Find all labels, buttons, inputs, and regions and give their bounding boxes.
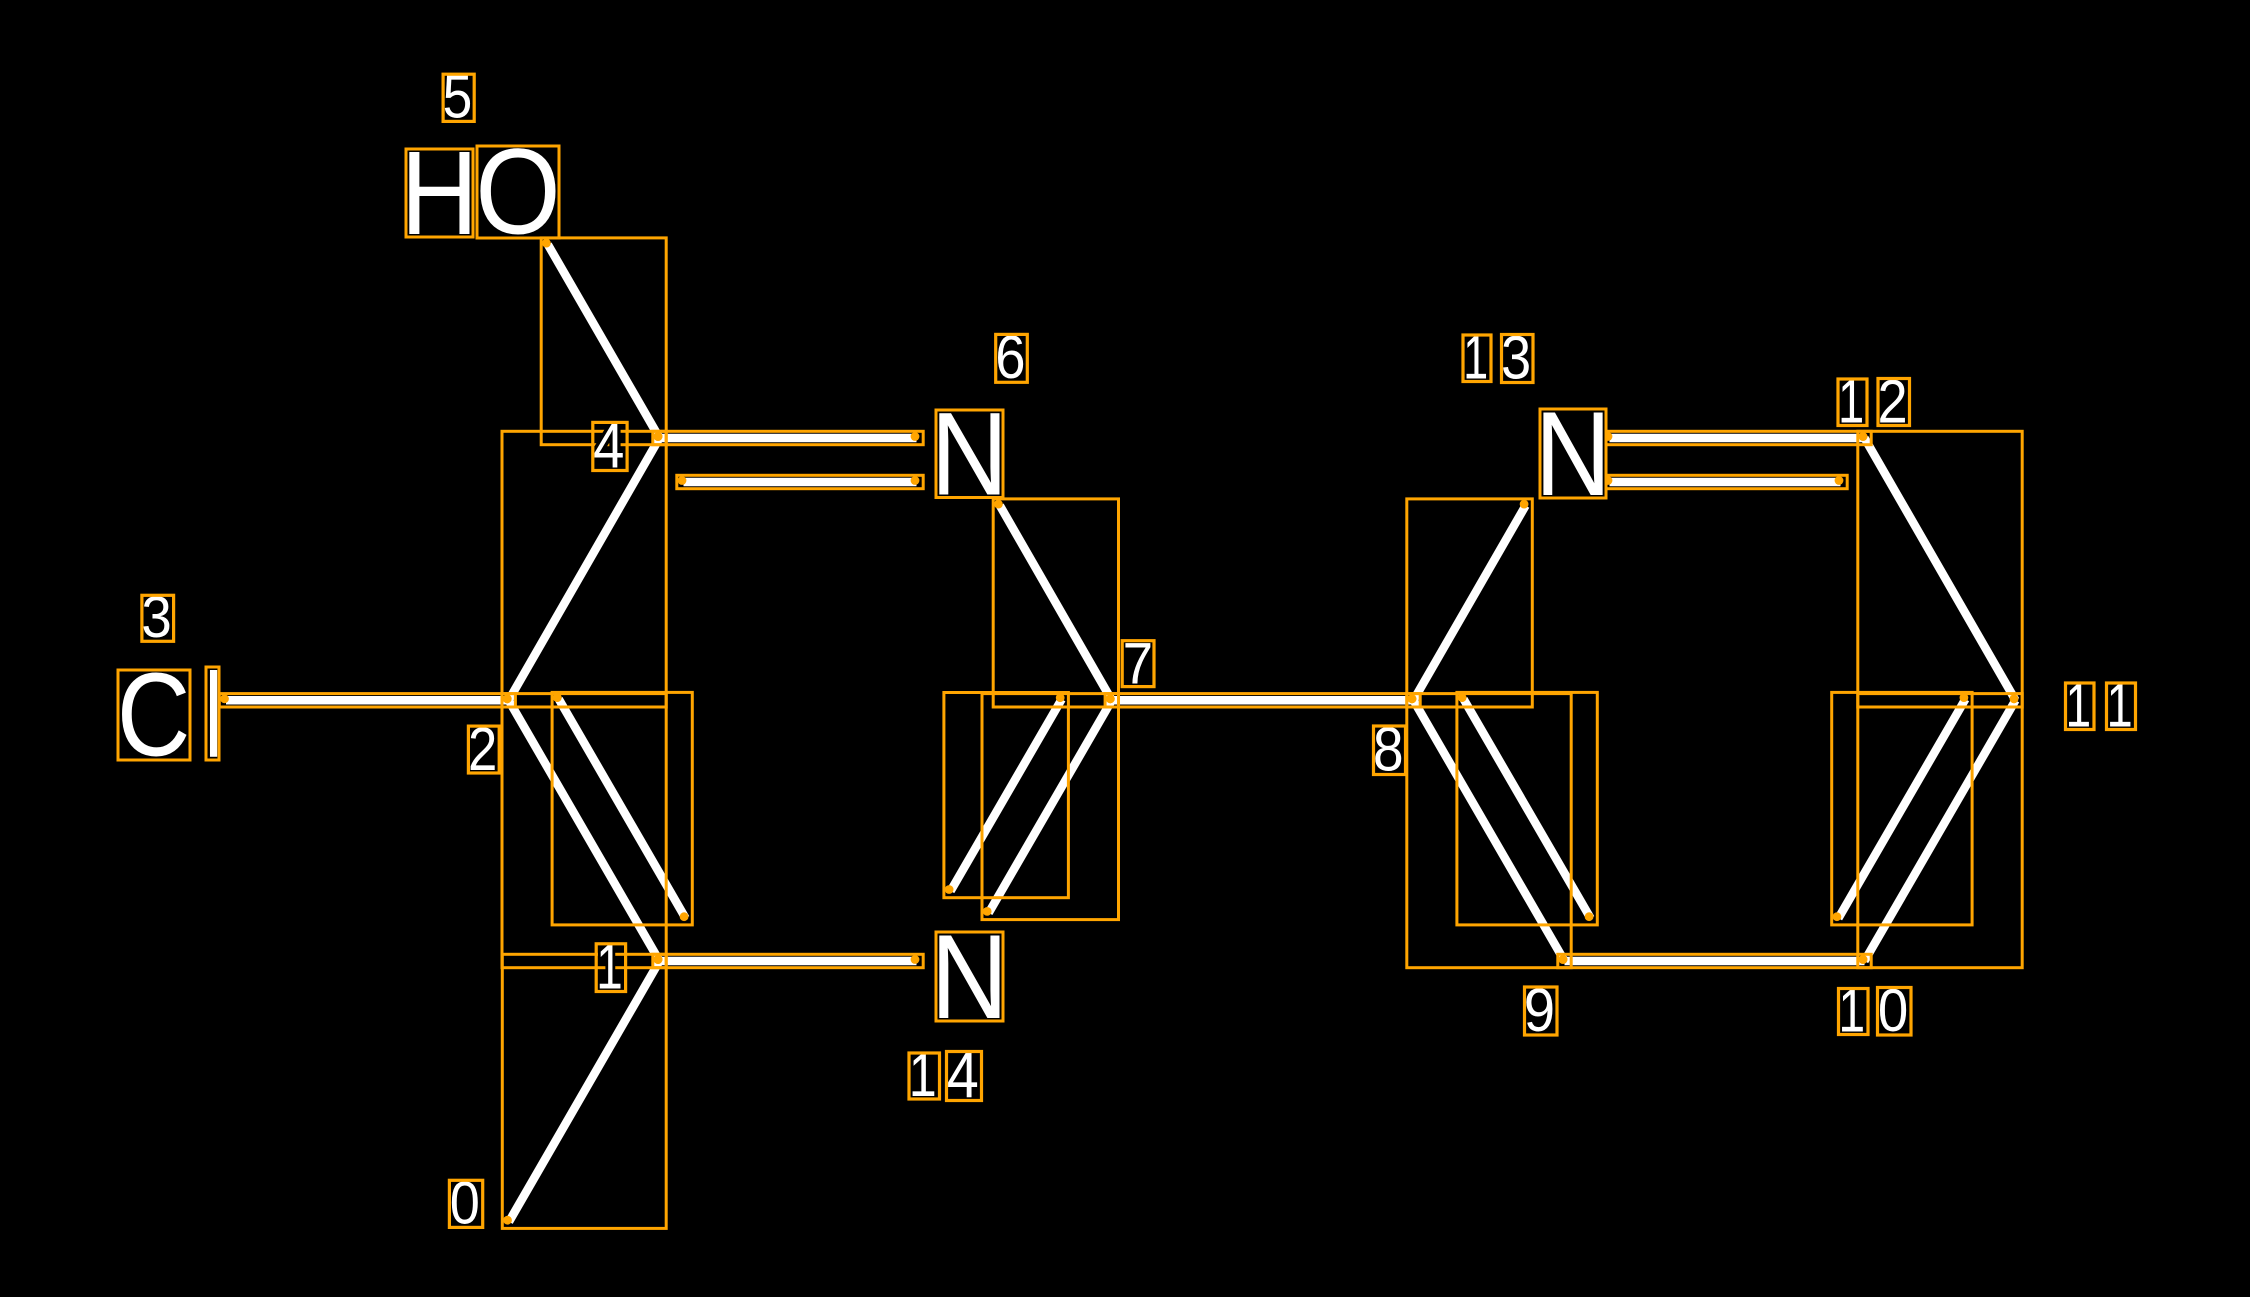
endpoint dots of bond C1-C0 (single): [654, 955, 663, 964]
atom index 11 digit 1 box: [2107, 683, 2136, 730]
bond O5-C4 (single): [548, 245, 660, 438]
box of bond N13=C12 main line: [1603, 431, 1871, 444]
box of bond C2=C1 inner line: [552, 692, 692, 925]
atom index 1 box: [596, 944, 625, 992]
atom index 5 box: [443, 74, 474, 121]
atom index 10 digit 1 box: [1839, 989, 1869, 1035]
atom index 14 digit 1 box: [909, 1053, 940, 1099]
box of atom label N (atom 6): [936, 410, 1003, 498]
bond C7=N14 main line: [989, 700, 1112, 913]
box of bond C4=N6 main line: [653, 431, 923, 444]
atom index 0 box: [449, 1180, 482, 1227]
box of bond C12-C11 (single): [1858, 431, 2022, 707]
bond C7=N14 inner line: [951, 699, 1062, 891]
atom index 14 digit 4 box: [947, 1052, 982, 1101]
bond C4=N6 main line: [660, 434, 917, 443]
bond C12-C11 (single): [1865, 438, 2016, 700]
atom index 13 digit 3 box: [1502, 335, 1534, 383]
endpoint dots of bond C4-C2 (single): [654, 432, 663, 441]
svg-text:N: N: [931, 388, 1009, 520]
endpoint dots of bond C4=N6 inner line: [678, 476, 687, 485]
endpoint dots of bond N6-C7 (single): [994, 500, 1003, 509]
box of bond C4=N6 inner line: [677, 475, 923, 488]
box of bond C2-Cl3 (single): [219, 694, 515, 707]
box of bond C9=C8 main line: [1407, 694, 1571, 968]
bond C7-C8 (single): [1112, 696, 1414, 705]
atom index 2 box: [468, 726, 499, 773]
atom index 3 box: [142, 595, 174, 641]
endpoint dots of bond C8-N13 (single): [1408, 694, 1417, 703]
atom index 13 digit 1 box: [1463, 335, 1491, 382]
bond C11=C10 inner line: [1838, 699, 1965, 918]
bond C1-N14 (single): [660, 957, 917, 966]
atom index 9 box: [1525, 987, 1558, 1035]
box of bond C11=C10 main line: [1858, 694, 2022, 968]
box of bond O5-C4 (single): [541, 238, 666, 445]
box of atom label H (of HO, atom 5): [406, 149, 473, 237]
box of atom label l (of Cl, atom 3): [206, 667, 219, 760]
bond C4-C2 (single): [509, 438, 660, 700]
endpoint dots of bond C11=C10 main line: [2010, 694, 2019, 703]
endpoint dots of bond C12-C11 (single): [1859, 432, 1868, 441]
box of bond N13=C12 inner line: [1603, 475, 1847, 488]
bond C10-C9 (single): [1565, 957, 1865, 966]
bond N6-C7 (single): [1000, 506, 1112, 701]
box of atom label C (of Cl, atom 3): [118, 670, 190, 760]
bond C9=C8 inner line: [1464, 699, 1591, 918]
box of bond C7=N14 inner line: [944, 693, 1069, 898]
endpoint dots of bond C2=C1 inner line: [553, 693, 562, 702]
endpoint dots of bond C9=C8 main line: [1559, 955, 1568, 964]
atom index 4 box: [593, 422, 627, 470]
endpoint dots of bond C2-Cl3 (single): [220, 694, 229, 703]
bond N13=C12 main line: [1610, 434, 1865, 443]
svg-text:H: H: [401, 127, 479, 260]
box of bond C11=C10 inner line: [1832, 692, 1972, 925]
box of bond C2=C1 main line: [502, 694, 666, 968]
box of bond C1-N14 (single): [653, 954, 923, 967]
atom index 7 box: [1122, 641, 1154, 687]
endpoint dots of bond O5-C4 (single): [542, 239, 551, 248]
bond C8-N13 (single): [1414, 506, 1526, 701]
endpoint dots of bond C2=C1 main line: [503, 694, 512, 703]
box of bond C7-C8 (single): [1105, 694, 1420, 707]
box of bond C9=C8 inner line: [1457, 692, 1597, 925]
box of bond C8-N13 (single): [1407, 499, 1533, 707]
svg-text:N: N: [1535, 387, 1611, 522]
endpoint dots of bond C10-C9 (single): [1559, 955, 1568, 964]
bond C11=C10 main line: [1865, 700, 2016, 961]
atom index 10 digit 0 box: [1878, 988, 1912, 1036]
endpoint dots of bond C7-C8 (single): [1106, 694, 1115, 703]
bond C2-Cl3 (single): [226, 696, 509, 705]
endpoint dots of bond C4=N6 main line: [654, 432, 663, 441]
atom index 8 box: [1374, 726, 1406, 775]
box of atom label N (atom 13): [1540, 409, 1606, 498]
endpoint dots of bond C11=C10 inner line: [1960, 693, 1969, 702]
endpoint dots of bond N13=C12 main line: [1604, 432, 1613, 441]
endpoint dots of bond N13=C12 inner line: [1604, 476, 1613, 485]
bond C2=C1 main line: [509, 700, 660, 961]
bond C1-C0 (single): [509, 961, 660, 1222]
box of bond N6-C7 (single): [993, 499, 1118, 707]
box of bond C7=N14 main line: [982, 694, 1119, 920]
svg-text:N: N: [931, 910, 1009, 1044]
atom index 12 digit 2 box: [1878, 379, 1910, 426]
endpoint dots of bond C7=N14 inner line: [1056, 693, 1065, 702]
bond C4=N6 inner line: [684, 478, 917, 487]
box of atom label N (atom 14): [936, 932, 1003, 1021]
bond N13=C12 inner line: [1610, 478, 1841, 487]
endpoint dots of bond C9=C8 inner line: [1458, 693, 1467, 702]
atom index 11 digit 1 box: [2066, 683, 2095, 730]
bond C9=C8 main line: [1414, 700, 1565, 961]
box of bond C1-C0 (single): [502, 954, 666, 1228]
bond C2=C1 inner line: [559, 699, 686, 918]
box of bond C10-C9 (single): [1558, 954, 1871, 967]
atom index 6 box: [996, 334, 1028, 382]
endpoint dots of bond C1-N14 (single): [654, 955, 663, 964]
box of atom label O (of HO, atom 5): [477, 146, 559, 238]
endpoint dots of bond C7=N14 main line: [1106, 694, 1115, 703]
box of bond C4-C2 (single): [502, 431, 666, 707]
atom index 12 digit 1 box: [1838, 379, 1867, 426]
